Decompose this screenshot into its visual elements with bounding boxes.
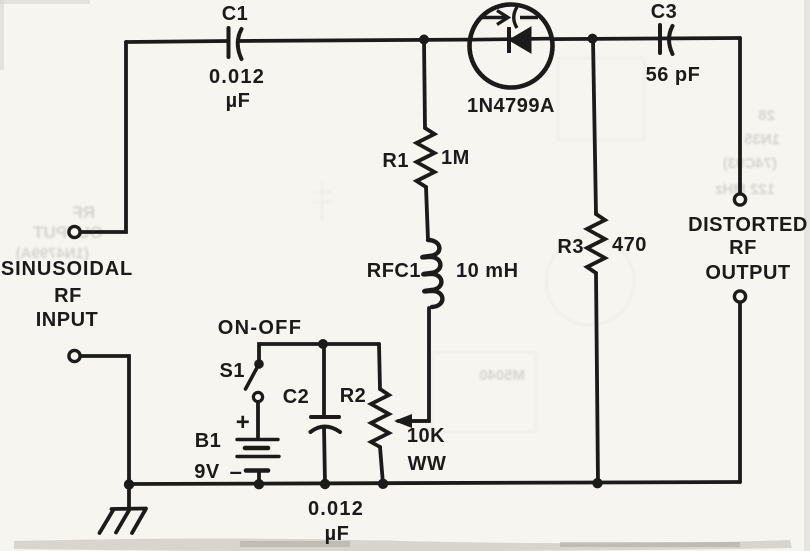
svg-text:ON-OFF: ON-OFF	[218, 317, 302, 339]
svg-text:0.012: 0.012	[308, 498, 364, 520]
svg-text:S1: S1	[220, 360, 245, 382]
svg-text:RF: RF	[54, 285, 82, 307]
svg-text:µF: µF	[226, 90, 251, 112]
svg-text:56 pF: 56 pF	[646, 64, 701, 86]
svg-text:µF: µF	[325, 523, 350, 545]
svg-text:1N4799A: 1N4799A	[467, 95, 555, 117]
svg-text:9V: 9V	[194, 461, 220, 483]
svg-text:10 mH: 10 mH	[456, 260, 519, 282]
svg-text:0.012: 0.012	[209, 66, 265, 88]
svg-text:WW: WW	[408, 453, 447, 475]
svg-text:RFC1: RFC1	[367, 260, 421, 282]
svg-text:470: 470	[612, 234, 647, 256]
svg-text:1N35: 1N35	[744, 131, 780, 148]
svg-text:INPUT: INPUT	[36, 309, 99, 331]
svg-text:SINUSOIDAL: SINUSOIDAL	[1, 258, 133, 280]
svg-text:R1: R1	[382, 150, 409, 172]
svg-text:10K: 10K	[407, 425, 445, 447]
svg-text:–: –	[230, 459, 243, 484]
svg-text:OUTPUT: OUTPUT	[705, 262, 790, 284]
svg-text:C2: C2	[283, 386, 310, 408]
svg-text:C3: C3	[651, 1, 678, 23]
svg-text:M5040: M5040	[479, 367, 525, 384]
svg-text:RF: RF	[72, 203, 95, 222]
svg-text:1M: 1M	[441, 147, 470, 169]
svg-text:+: +	[236, 409, 251, 436]
svg-text:RF: RF	[729, 237, 757, 259]
svg-text:28: 28	[758, 107, 775, 124]
svg-text:R2: R2	[340, 385, 367, 407]
svg-text:B1: B1	[195, 430, 222, 452]
svg-text:DISTORTED: DISTORTED	[688, 214, 808, 236]
svg-text:C1: C1	[222, 3, 249, 25]
svg-text:R3: R3	[557, 236, 584, 258]
svg-text:(74C93): (74C93)	[723, 155, 777, 172]
